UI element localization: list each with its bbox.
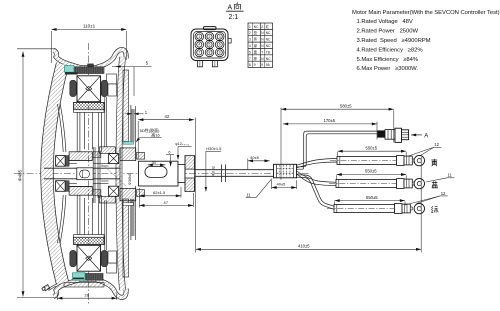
svg-text:550±5: 550±5 bbox=[365, 169, 377, 174]
phase wire pair blue bbox=[297, 171, 337, 185]
svg-text:62±1.5: 62±1.5 bbox=[153, 190, 166, 195]
svg-text:高16: 高16 bbox=[151, 131, 160, 137]
sensor wire pair bbox=[297, 131, 378, 169]
stator winding bottom (X-box) bbox=[77, 245, 101, 271]
svg-text:7: 7 bbox=[249, 57, 251, 61]
label 11 sleeve bbox=[246, 179, 272, 198]
nut silhouettes bbox=[120, 148, 195, 201]
svg-text:9: 9 bbox=[254, 63, 256, 67]
winding end blob right bottom bbox=[101, 250, 107, 266]
svg-text:580±5: 580±5 bbox=[340, 103, 352, 108]
bearing housing hatched lower bbox=[100, 196, 116, 203]
svg-text:9: 9 bbox=[261, 63, 263, 67]
phase wire pair yellow bbox=[297, 159, 338, 168]
svg-text:NC: NC bbox=[266, 57, 271, 61]
svg-text:2:1: 2:1 bbox=[229, 14, 239, 21]
svg-text:5: 5 bbox=[209, 43, 211, 47]
rim right wall band bbox=[119, 57, 123, 290]
bearing housing hatched upper bbox=[100, 147, 116, 154]
view label A-xiang 2:1 bbox=[228, 5, 239, 22]
motor right cover plate lower bbox=[123, 199, 129, 277]
svg-text:1: 1 bbox=[249, 25, 251, 29]
dim 1 (plate gap) bbox=[125, 109, 148, 115]
cable sleeve bbox=[274, 164, 297, 178]
glyph xiang bbox=[234, 2, 240, 9]
hub bearing left upper (X) bbox=[56, 156, 66, 167]
svg-text:TB: TB bbox=[266, 50, 270, 54]
dim 40 shaft exposed bbox=[248, 155, 270, 170]
svg-text:3: 3 bbox=[219, 35, 221, 39]
svg-text:47: 47 bbox=[164, 200, 169, 205]
svg-text:红: 红 bbox=[266, 24, 270, 29]
annotation rubber pad bbox=[136, 127, 162, 142]
sensor connector ferrule bbox=[385, 130, 395, 140]
svg-text:34: 34 bbox=[152, 161, 156, 165]
hub tube walls bbox=[77, 112, 101, 234]
svg-text:410±5: 410±5 bbox=[298, 244, 310, 249]
axle horizontal centerline bbox=[14, 173, 310, 175]
svg-text:NC: NC bbox=[266, 31, 271, 35]
winding end blob left top bbox=[70, 80, 76, 96]
bearing seals left bbox=[65, 156, 69, 167]
motor right cover plate upper bbox=[123, 70, 129, 142]
svg-text:NC: NC bbox=[266, 44, 271, 48]
dim cable1 550 bbox=[338, 145, 407, 157]
sensor connector body bbox=[395, 128, 402, 142]
shaft break symbol bbox=[221, 165, 225, 183]
svg-text:550±5: 550±5 bbox=[366, 145, 378, 150]
svg-text:9A: 9A bbox=[266, 63, 271, 67]
svg-text:11: 11 bbox=[246, 193, 251, 198]
magnet ring top (dark) bbox=[75, 64, 105, 74]
svg-text:5: 5 bbox=[146, 61, 149, 66]
hub tube lines mid bbox=[69, 160, 92, 186]
svg-text:1: 1 bbox=[198, 35, 200, 39]
rim left wall band bbox=[47, 64, 63, 283]
long thin shaft bbox=[195, 170, 274, 177]
connector contacts 3x3 bbox=[195, 32, 224, 56]
tire valve bbox=[42, 284, 57, 291]
label blue bbox=[432, 181, 438, 187]
dim overall diameter (left vertical) bbox=[17, 49, 56, 298]
svg-text:28: 28 bbox=[85, 293, 90, 298]
stator winding top (X-box) bbox=[77, 76, 101, 102]
dim 6 keyway offset bbox=[166, 151, 174, 167]
dim 47 bbox=[139, 193, 193, 207]
svg-text:40±5: 40±5 bbox=[250, 155, 260, 160]
axle stub shaft bbox=[139, 161, 179, 186]
label 12 top bbox=[409, 142, 442, 156]
svg-text:110±1: 110±1 bbox=[83, 24, 96, 29]
svg-text:550±5: 550±5 bbox=[366, 195, 378, 200]
phase wire pair green bbox=[297, 175, 335, 210]
svg-text:40±5: 40±5 bbox=[277, 182, 287, 187]
hub block hatched lower bbox=[69, 187, 92, 196]
svg-text:6.Max Power ≥3000W.: 6.Max Power ≥3000W. bbox=[357, 66, 419, 72]
winding end blob right top bbox=[101, 80, 107, 96]
svg-text:9: 9 bbox=[219, 51, 221, 55]
phase cable 3 (green) bbox=[327, 203, 424, 213]
svg-text:2: 2 bbox=[249, 31, 251, 35]
hall wire part right (cyan) bbox=[123, 142, 134, 145]
svg-text:Φ485: Φ485 bbox=[18, 169, 23, 181]
dim cable2 550 bbox=[337, 169, 407, 180]
dim 580 bbox=[281, 103, 394, 180]
rotor yoke bar top bbox=[74, 103, 105, 113]
svg-text:N: N bbox=[261, 38, 264, 42]
svg-text:N: N bbox=[261, 44, 264, 48]
svg-text:4: 4 bbox=[249, 44, 251, 48]
svg-text:A: A bbox=[228, 5, 233, 12]
sensor cable end (black) bbox=[377, 130, 385, 137]
hub bearing left lower (X) bbox=[56, 181, 66, 192]
svg-text:黄: 黄 bbox=[254, 37, 258, 42]
dim 42 (stub length) bbox=[138, 114, 194, 159]
annotation phi12 bbox=[175, 142, 191, 160]
dim 5 (cover offset) bbox=[112, 61, 152, 96]
pin assignment table bbox=[248, 23, 273, 68]
svg-text:12: 12 bbox=[434, 142, 439, 147]
svg-text:NC: NC bbox=[266, 38, 271, 42]
svg-text:6: 6 bbox=[219, 43, 221, 47]
svg-text:H30±1.5: H30±1.5 bbox=[206, 146, 222, 151]
dim 62 bbox=[139, 187, 181, 208]
axle shaft through hub bbox=[44, 168, 120, 179]
svg-text:棕: 棕 bbox=[254, 56, 258, 61]
washer lower bbox=[137, 190, 145, 197]
svg-text:3.Rated Speed ≥4900RPM: 3.Rated Speed ≥4900RPM bbox=[357, 38, 431, 44]
svg-text:5.Max Efficiency ≥84%: 5.Max Efficiency ≥84% bbox=[357, 57, 419, 63]
svg-text:3: 3 bbox=[249, 38, 251, 42]
keyway slot bbox=[145, 167, 167, 178]
axle bearing right lower (X) bbox=[109, 186, 119, 196]
svg-text:170±5: 170±5 bbox=[324, 118, 336, 123]
view A arrow bbox=[411, 133, 428, 139]
brake flange plate bbox=[93, 147, 101, 203]
axle bush with key bbox=[77, 168, 93, 180]
shaft step bbox=[178, 165, 185, 183]
hub tube step lines bbox=[69, 164, 108, 184]
dim cable3 550 bbox=[335, 195, 406, 205]
svg-text:蓝: 蓝 bbox=[254, 30, 258, 35]
svg-text:Φ30h6: Φ30h6 bbox=[128, 174, 132, 185]
svg-text:1: 1 bbox=[145, 110, 148, 115]
svg-text:Φ0.02: Φ0.02 bbox=[212, 166, 216, 176]
svg-text:42: 42 bbox=[165, 114, 170, 119]
hall sensor part bottom (cyan) bbox=[73, 273, 86, 280]
svg-text:11: 11 bbox=[448, 173, 453, 178]
cover inner verticals bbox=[105, 97, 136, 250]
svg-text:5: 5 bbox=[249, 50, 251, 54]
dim 110 rim width (top) bbox=[51, 24, 126, 63]
label yellow bbox=[431, 159, 437, 167]
svg-text:Motor Main Parameter(With the: Motor Main Parameter(With the SEVCON Con… bbox=[352, 10, 500, 16]
axle nut inner lower (hatched) bbox=[120, 188, 136, 200]
shaft nut outer lower (hatched) bbox=[185, 178, 195, 192]
label 11 right bbox=[426, 173, 455, 182]
dim 40 sleeve bbox=[272, 180, 297, 189]
dim 410 overall bbox=[196, 157, 422, 253]
dim 170 bbox=[283, 118, 377, 139]
svg-text:8: 8 bbox=[249, 63, 251, 67]
label 12 bottom bbox=[405, 191, 448, 205]
connector pins bottom bbox=[197, 61, 217, 67]
phase cable 1 (yellow) bbox=[330, 155, 424, 165]
axle bearing right upper (X) bbox=[109, 154, 119, 164]
phantom diagonal on shaft bbox=[101, 164, 126, 187]
svg-text:黑: 黑 bbox=[254, 50, 258, 54]
svg-text:2: 2 bbox=[209, 35, 211, 39]
annotation H30 bbox=[206, 146, 222, 191]
svg-text:绿: 绿 bbox=[254, 43, 258, 48]
svg-text:2.Rated Power 2500W: 2.Rated Power 2500W bbox=[357, 29, 419, 35]
axle nut inner upper (hatched) bbox=[120, 148, 136, 161]
connector 9pin body bbox=[191, 27, 231, 61]
svg-text:N: N bbox=[261, 31, 264, 35]
hall sensor part top (cyan) bbox=[65, 66, 78, 75]
svg-text:1.Rated Voltage 48V: 1.Rated Voltage 48V bbox=[357, 19, 413, 25]
rotor yoke bar bottom bbox=[74, 235, 105, 245]
wheel disc lines left bbox=[58, 104, 66, 243]
svg-text:6: 6 bbox=[168, 151, 170, 155]
winding end blob left bottom bbox=[70, 250, 76, 266]
svg-text:φ12₊₀.₀₅: φ12₊₀.₀₅ bbox=[175, 142, 190, 146]
dim 28 bottom bbox=[57, 293, 117, 301]
wheel vertical centerline axis bbox=[88, 43, 90, 304]
svg-text:8: 8 bbox=[209, 51, 211, 55]
rim top profile band bbox=[54, 50, 127, 68]
svg-text:4: 4 bbox=[198, 43, 200, 47]
dim 34 keyway bbox=[148, 161, 166, 165]
svg-text:NC: NC bbox=[254, 25, 259, 29]
shaft nut outer upper (hatched) bbox=[185, 156, 195, 170]
svg-text:A: A bbox=[424, 133, 428, 139]
svg-text:T: T bbox=[261, 50, 263, 54]
hub block hatched upper bbox=[69, 152, 92, 161]
rim bottom profile band bbox=[54, 279, 127, 297]
magnet ring bottom (dark) bbox=[85, 274, 103, 281]
svg-text:7: 7 bbox=[198, 51, 200, 55]
sensor connector nose bbox=[402, 130, 409, 140]
svg-text:N: N bbox=[261, 57, 264, 61]
label green bbox=[431, 206, 438, 213]
svg-text:4.Rated Efficiency ≥82%: 4.Rated Efficiency ≥82% bbox=[357, 47, 424, 53]
svg-text:12: 12 bbox=[441, 191, 446, 196]
phase cable 2 (blue) bbox=[329, 178, 424, 188]
washer upper bbox=[137, 152, 145, 159]
cover step blocks bbox=[107, 74, 117, 273]
cover face plates bbox=[131, 105, 134, 240]
extension line nut end to 410 dim bbox=[195, 118, 197, 253]
bottom cover plate hatched bbox=[64, 283, 104, 288]
svg-text:2: 2 bbox=[261, 25, 263, 29]
